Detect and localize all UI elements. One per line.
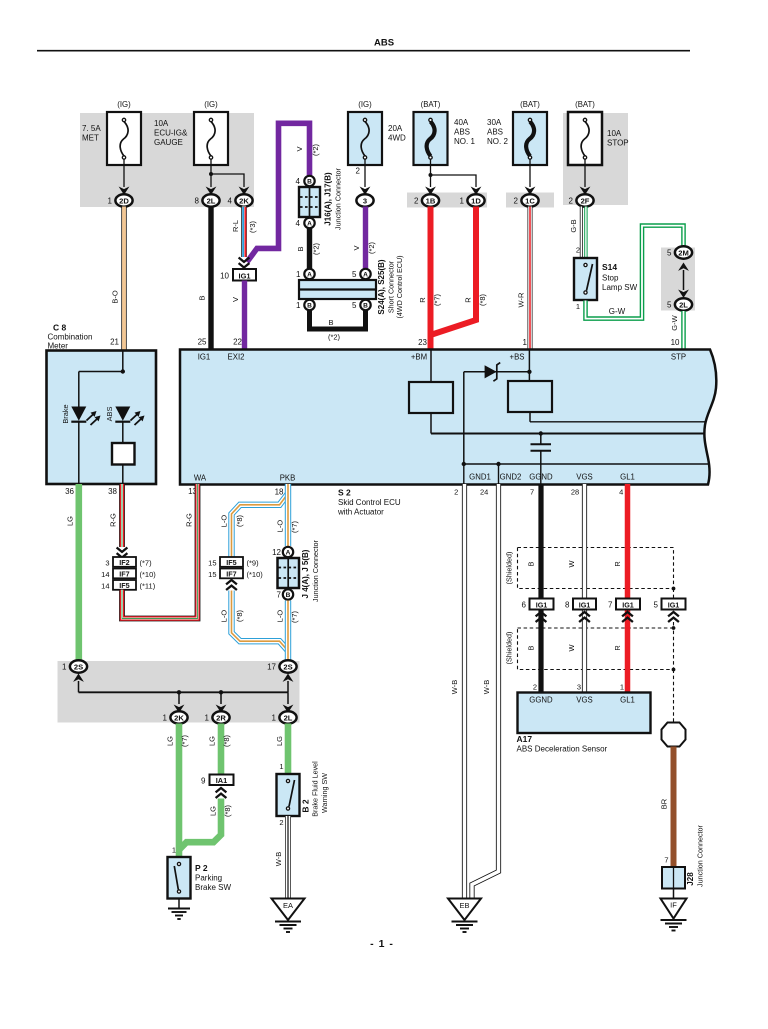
svg-text:Parking: Parking bbox=[195, 874, 222, 883]
svg-text:NO. 1: NO. 1 bbox=[454, 137, 475, 146]
svg-text:2S: 2S bbox=[74, 662, 83, 671]
svg-text:(*2): (*2) bbox=[311, 143, 320, 156]
svg-text:22: 22 bbox=[233, 338, 242, 347]
svg-text:40A: 40A bbox=[454, 118, 469, 127]
combination meter C8 box bbox=[47, 351, 157, 485]
svg-text:(*11): (*11) bbox=[140, 581, 156, 590]
svg-text:(*7): (*7) bbox=[290, 520, 299, 533]
svg-text:15: 15 bbox=[208, 558, 216, 567]
connector 1B (pin 2) bbox=[425, 187, 436, 195]
wire fuse MET to 2D bbox=[123, 159, 125, 187]
junction pass-through arrows 2M to 2L bbox=[678, 263, 689, 298]
page number bbox=[370, 938, 394, 950]
svg-text:IA1: IA1 bbox=[216, 776, 228, 785]
svg-text:(*7): (*7) bbox=[290, 610, 299, 623]
svg-text:IG1: IG1 bbox=[622, 600, 634, 609]
svg-text:J16(A), J17(B): J16(A), J17(B) bbox=[324, 172, 333, 226]
svg-text:GL1: GL1 bbox=[620, 696, 635, 705]
fuse 40A ABS NO.1 bbox=[414, 100, 476, 165]
svg-text:(Shielded): (Shielded) bbox=[504, 552, 513, 585]
svg-text:GAUGE: GAUGE bbox=[154, 138, 183, 147]
svg-text:(*2): (*2) bbox=[312, 242, 321, 255]
wire BR shield drain to J28 bbox=[660, 747, 674, 868]
svg-text:+BS: +BS bbox=[510, 353, 525, 362]
junction connector IF7 (pin 14, *10) bbox=[101, 569, 156, 579]
svg-text:1: 1 bbox=[576, 302, 580, 311]
ECU internal +BM lead bbox=[430, 350, 432, 382]
arrows below IG1 pin5 bbox=[668, 612, 679, 622]
svg-text:2: 2 bbox=[576, 246, 580, 255]
svg-text:10: 10 bbox=[671, 338, 680, 347]
wire R-L (*3) from 2K to IG1 node bbox=[231, 207, 257, 258]
svg-text:IG1: IG1 bbox=[198, 353, 211, 362]
svg-text:2L: 2L bbox=[284, 713, 293, 722]
connector strip shading (2M-2L junction) bbox=[661, 248, 695, 311]
svg-text:A: A bbox=[307, 272, 312, 279]
svg-text:GND1: GND1 bbox=[469, 473, 491, 482]
svg-text:PKB: PKB bbox=[280, 474, 296, 483]
svg-text:24: 24 bbox=[480, 488, 488, 497]
svg-text:LG: LG bbox=[275, 736, 284, 746]
svg-text:C 8: C 8 bbox=[53, 323, 67, 333]
svg-text:1B: 1B bbox=[426, 196, 436, 205]
svg-text:W: W bbox=[567, 560, 576, 567]
wire fuse ABS NO.2 to 1C bbox=[529, 159, 531, 187]
svg-text:2M: 2M bbox=[678, 248, 689, 257]
junction connector IF5 (pin 15, *9) bbox=[208, 557, 259, 567]
svg-text:VGS: VGS bbox=[576, 473, 592, 482]
svg-text:B: B bbox=[527, 561, 536, 566]
svg-text:1: 1 bbox=[62, 663, 67, 672]
svg-text:B: B bbox=[307, 303, 312, 310]
shield box lower (Shielded) bbox=[504, 628, 673, 670]
wire B-O from 2D to combination meter pin 21 bbox=[110, 207, 124, 351]
svg-text:7: 7 bbox=[608, 601, 613, 610]
svg-text:1: 1 bbox=[205, 714, 210, 723]
svg-text:IF2: IF2 bbox=[119, 558, 129, 567]
svg-text:17: 17 bbox=[267, 663, 276, 672]
svg-text:B: B bbox=[286, 592, 291, 599]
fuse 7.5A MET bbox=[82, 100, 141, 165]
svg-text:Lamp SW: Lamp SW bbox=[602, 283, 638, 292]
arrows below IG1 pin6 bbox=[536, 612, 547, 622]
svg-text:Junction Connector: Junction Connector bbox=[333, 167, 342, 230]
connector 3 bbox=[360, 187, 371, 195]
svg-text:5: 5 bbox=[352, 270, 357, 279]
svg-text:4: 4 bbox=[296, 177, 301, 186]
junction connector IF2 (pin 3, *7) bbox=[105, 557, 152, 567]
junction 2S left (pin 1) bbox=[62, 660, 87, 672]
svg-text:4: 4 bbox=[619, 488, 623, 497]
connector 2K (pin 4) bbox=[239, 187, 250, 195]
svg-text:R-G: R-G bbox=[109, 513, 118, 527]
svg-text:14: 14 bbox=[101, 581, 109, 590]
svg-text:L-O: L-O bbox=[276, 520, 285, 533]
svg-text:R: R bbox=[613, 561, 622, 566]
wire L-O (*8) return to 2S bbox=[220, 591, 288, 651]
svg-text:4: 4 bbox=[296, 219, 301, 228]
short connector S24(A), S25(B) (4WD Control ECU) bbox=[296, 255, 404, 318]
junction arrows out of IF7 bbox=[226, 580, 237, 590]
svg-text:9: 9 bbox=[201, 776, 206, 785]
svg-text:7. 5A: 7. 5A bbox=[82, 124, 101, 133]
svg-text:IF5: IF5 bbox=[226, 558, 236, 567]
svg-text:GND2: GND2 bbox=[500, 473, 522, 482]
svg-text:Combination: Combination bbox=[48, 333, 93, 342]
wire R (*7) from 1B to ECU +BM pin 23 bbox=[418, 207, 442, 351]
ECU internal capacitor bbox=[531, 431, 552, 464]
connector 2D bbox=[119, 187, 130, 195]
wire fuse STOP to 2F bbox=[584, 159, 586, 187]
svg-text:10: 10 bbox=[220, 272, 229, 281]
svg-text:A: A bbox=[363, 272, 368, 279]
svg-text:2: 2 bbox=[514, 197, 519, 206]
svg-text:B: B bbox=[363, 303, 368, 310]
svg-text:(Shielded): (Shielded) bbox=[504, 632, 513, 665]
svg-text:2L: 2L bbox=[207, 196, 216, 205]
svg-text:IG1: IG1 bbox=[579, 600, 591, 609]
svg-text:GGND: GGND bbox=[529, 696, 553, 705]
C8 internal resistor box bbox=[112, 443, 135, 465]
svg-text:1: 1 bbox=[620, 683, 624, 692]
svg-text:(*9): (*9) bbox=[247, 558, 260, 567]
svg-text:L-O: L-O bbox=[276, 610, 285, 623]
svg-text:10A: 10A bbox=[154, 119, 169, 128]
connector strip shading (1B 1D) bbox=[407, 193, 487, 208]
shield drain octagon terminal bbox=[662, 723, 686, 747]
svg-text:MET: MET bbox=[82, 134, 99, 143]
junction connector IG1 (pin 5) bbox=[654, 599, 686, 610]
svg-text:Brake Fluid Level: Brake Fluid Level bbox=[310, 761, 319, 817]
wire B from 2L to ECU pin 25 bbox=[198, 207, 211, 351]
A17 designation text bbox=[517, 734, 608, 754]
ECU internal solenoid box 2 bbox=[508, 381, 552, 412]
svg-text:B: B bbox=[198, 295, 207, 300]
arrows below IG1 pin8 bbox=[579, 612, 590, 622]
svg-text:25: 25 bbox=[198, 338, 207, 347]
wire LG (*8) from 2R to IA1 bbox=[208, 724, 232, 775]
fuse 20A 4WD bbox=[348, 100, 406, 165]
junction 2M (pin 5) bbox=[667, 246, 692, 258]
svg-text:2: 2 bbox=[279, 818, 283, 827]
junction 2R (pin 1) bbox=[205, 711, 230, 723]
svg-text:B 2: B 2 bbox=[300, 799, 310, 813]
svg-text:EB: EB bbox=[459, 901, 469, 910]
junction connector IF7 (pin 15, *10) bbox=[208, 569, 263, 579]
svg-text:3: 3 bbox=[363, 196, 367, 205]
svg-text:2: 2 bbox=[533, 683, 537, 692]
svg-text:2: 2 bbox=[356, 167, 361, 176]
svg-text:7: 7 bbox=[664, 856, 668, 865]
svg-text:R: R bbox=[613, 645, 622, 650]
svg-text:ECU-IG&: ECU-IG& bbox=[154, 129, 188, 138]
connector 2L (pin 8) bbox=[206, 187, 217, 195]
title ABS bbox=[374, 38, 394, 49]
wire V (*2) from IG1 node to junction connector J16 bbox=[247, 123, 320, 262]
junction connector IG1 (pin 7) bbox=[608, 599, 640, 610]
svg-text:15: 15 bbox=[208, 570, 216, 579]
svg-text:2S: 2S bbox=[283, 662, 292, 671]
svg-text:5: 5 bbox=[352, 301, 357, 310]
wire brake lamp to pin 36 bbox=[78, 422, 80, 484]
svg-text:A: A bbox=[307, 221, 312, 228]
svg-text:LG: LG bbox=[208, 736, 217, 746]
svg-text:W-B: W-B bbox=[274, 852, 283, 866]
svg-text:ABS: ABS bbox=[105, 407, 114, 422]
svg-text:7: 7 bbox=[277, 591, 282, 600]
svg-text:Junction Connector: Junction Connector bbox=[311, 539, 320, 602]
svg-text:5: 5 bbox=[667, 249, 672, 258]
svg-text:STOP: STOP bbox=[607, 139, 629, 148]
svg-text:28: 28 bbox=[571, 488, 579, 497]
junction arrows into IF2 bbox=[117, 548, 128, 558]
connector 1C (pin 2) bbox=[525, 187, 536, 195]
svg-text:+BM: +BM bbox=[411, 353, 427, 362]
brake fluid level warning switch B2 bbox=[277, 761, 329, 827]
arrows below IG1 pin7 bbox=[622, 612, 633, 622]
junction 2L (pin 1) bbox=[272, 711, 297, 723]
svg-text:2K: 2K bbox=[174, 713, 184, 722]
wire G-B from 2F to stop lamp switch pin 2 bbox=[569, 207, 586, 259]
pin numbers below C8 and S2 bbox=[65, 487, 284, 497]
wire B GGND from ECU pin 7 to sensor bbox=[527, 484, 541, 693]
svg-text:- 1 -: - 1 - bbox=[370, 938, 394, 950]
svg-text:GL1: GL1 bbox=[620, 473, 635, 482]
wire G-W from S14 to junction 2M bbox=[586, 226, 684, 319]
ECU internal zener diode branch bbox=[464, 363, 532, 464]
svg-text:1C: 1C bbox=[525, 196, 535, 205]
svg-text:BR: BR bbox=[660, 798, 669, 809]
svg-text:(*3): (*3) bbox=[248, 220, 257, 233]
svg-text:V: V bbox=[231, 297, 240, 302]
C8 internal wiring bbox=[79, 351, 125, 407]
fuse 30A ABS NO.2 bbox=[487, 100, 547, 165]
ECU bottom pin numbers bbox=[454, 488, 623, 497]
wire R (*8) from 1D bbox=[432, 207, 487, 335]
ABS warning lamp LED bbox=[105, 407, 144, 426]
svg-text:A: A bbox=[286, 550, 291, 557]
svg-text:R: R bbox=[418, 297, 427, 303]
ground below P2 bbox=[168, 899, 190, 920]
junction connector IG1 (pin 8) bbox=[565, 599, 596, 610]
ECU internal wire box2 to bus bbox=[530, 412, 707, 422]
svg-text:(BAT): (BAT) bbox=[575, 100, 595, 109]
svg-text:(BAT): (BAT) bbox=[520, 100, 540, 109]
svg-text:Skid Control ECU: Skid Control ECU bbox=[338, 498, 401, 507]
relay block shading (STOP fuse) bbox=[563, 113, 628, 205]
svg-text:(*8): (*8) bbox=[235, 609, 244, 622]
svg-text:V: V bbox=[295, 146, 304, 151]
svg-text:S24(A), S25(B): S24(A), S25(B) bbox=[377, 259, 386, 314]
svg-text:IF7: IF7 bbox=[119, 570, 129, 579]
junction connector J28 bbox=[662, 824, 704, 888]
svg-text:Warning SW: Warning SW bbox=[320, 773, 329, 813]
ground point IF bbox=[661, 899, 687, 931]
ECU internal ground bus bbox=[462, 462, 710, 484]
svg-text:ABS: ABS bbox=[487, 128, 503, 137]
connector 1D (pin 1) bbox=[471, 187, 482, 195]
svg-text:3: 3 bbox=[105, 558, 109, 567]
wire B (*2) loop under short connector bbox=[310, 311, 366, 342]
wire R-G from C8 pin 38 bbox=[109, 484, 122, 547]
svg-text:W-B: W-B bbox=[450, 680, 459, 694]
wire W-B from B2 pin 2 to ground EA bbox=[274, 816, 288, 899]
svg-text:L-O: L-O bbox=[220, 515, 229, 528]
ECU designation text S2 bbox=[337, 488, 401, 517]
svg-text:(4WD Control ECU): (4WD Control ECU) bbox=[395, 255, 404, 318]
svg-text:36: 36 bbox=[65, 487, 74, 496]
wire fuse ABS NO.1 to 1B / branch to 1D bbox=[429, 159, 477, 187]
svg-text:2: 2 bbox=[414, 197, 419, 206]
svg-text:1D: 1D bbox=[471, 196, 481, 205]
svg-text:Brake SW: Brake SW bbox=[195, 883, 231, 892]
junction arrows out of IA1 bbox=[216, 788, 227, 798]
svg-text:EA: EA bbox=[283, 901, 293, 910]
svg-text:EXI2: EXI2 bbox=[228, 353, 245, 362]
junction connector IF5 (pin 14, *11) bbox=[101, 580, 156, 590]
connector 2F (pin 2) bbox=[580, 187, 591, 195]
wire V (*2) from connector 3 to short connector bbox=[352, 207, 376, 269]
skid control ECU S2 box bbox=[180, 350, 716, 485]
svg-text:J 4(A), J 5(B): J 4(A), J 5(B) bbox=[301, 549, 310, 598]
svg-text:with Actuator: with Actuator bbox=[337, 508, 384, 517]
svg-text:IG1: IG1 bbox=[668, 600, 680, 609]
junction arrows into IG1 bbox=[239, 258, 250, 268]
wire L-O (*7) from ECU PKB pin 18 to J4 bbox=[276, 484, 300, 546]
wire fuse 4WD pin 2 to connector 3 bbox=[356, 159, 365, 187]
svg-text:IF7: IF7 bbox=[226, 570, 236, 579]
wire resistor to pin 38 bbox=[122, 465, 124, 485]
svg-text:V: V bbox=[352, 245, 361, 250]
junction 2L (pin 5) bbox=[667, 298, 692, 310]
wire LG (*8) branch from IA1 to parking brake switch bbox=[179, 799, 232, 850]
svg-text:(*8): (*8) bbox=[223, 804, 232, 817]
svg-text:1: 1 bbox=[460, 197, 465, 206]
svg-text:2: 2 bbox=[569, 197, 574, 206]
junction connector IG1 (pin 10) bbox=[220, 269, 256, 281]
svg-text:(*8): (*8) bbox=[478, 293, 487, 306]
junction 2K (pin 1) bbox=[163, 711, 188, 723]
wire R-G loop from IF5 to ECU WA pin 13 bbox=[122, 484, 198, 619]
svg-text:18: 18 bbox=[275, 488, 284, 497]
wire B (*2) J16 to short connector bbox=[296, 229, 321, 269]
svg-text:23: 23 bbox=[418, 338, 427, 347]
svg-text:G-B: G-B bbox=[569, 219, 578, 232]
junction connector J16(A), J17(B) bbox=[296, 167, 343, 230]
svg-text:30A: 30A bbox=[487, 118, 502, 127]
svg-text:W: W bbox=[567, 644, 576, 651]
svg-text:(*7): (*7) bbox=[433, 293, 442, 306]
svg-text:IG1: IG1 bbox=[239, 271, 251, 280]
svg-text:14: 14 bbox=[101, 570, 109, 579]
svg-text:(IG): (IG) bbox=[358, 100, 372, 109]
wire fuse ECU-IG to 2L / branch to 2K bbox=[209, 159, 244, 187]
svg-text:1: 1 bbox=[172, 846, 176, 855]
svg-text:(BAT): (BAT) bbox=[421, 100, 441, 109]
svg-text:B: B bbox=[307, 179, 312, 186]
svg-text:2L: 2L bbox=[679, 300, 688, 309]
svg-text:1: 1 bbox=[108, 197, 113, 206]
sensor pin numbers bbox=[533, 683, 624, 692]
C8 designation text bbox=[48, 323, 93, 351]
svg-text:(*10): (*10) bbox=[140, 570, 157, 579]
svg-text:A17: A17 bbox=[517, 734, 533, 744]
svg-text:2: 2 bbox=[454, 488, 458, 497]
junction 2S right (pin 17) bbox=[267, 660, 297, 672]
fuse 10A ECU-IG & GAUGE bbox=[154, 100, 228, 165]
svg-text:R-L: R-L bbox=[231, 220, 240, 232]
svg-text:12: 12 bbox=[272, 548, 281, 557]
svg-text:2R: 2R bbox=[216, 713, 226, 722]
svg-text:10A: 10A bbox=[607, 129, 622, 138]
svg-text:6: 6 bbox=[522, 601, 527, 610]
parking brake switch P2 (pin 1) bbox=[168, 846, 232, 899]
svg-text:(*10): (*10) bbox=[247, 570, 264, 579]
ECU internal wire box1 to bus bbox=[431, 413, 705, 434]
wire V from IG1 to ECU pin 22 EXI2 bbox=[231, 281, 244, 351]
svg-text:S 2: S 2 bbox=[338, 488, 351, 498]
fuse 10A STOP bbox=[568, 100, 629, 165]
svg-text:G-W: G-W bbox=[670, 314, 679, 330]
svg-text:ABS: ABS bbox=[374, 38, 394, 49]
ABS deceleration sensor A17 box bbox=[518, 693, 651, 734]
wire LG (*7) from 2K to parking brake switch bbox=[166, 724, 190, 858]
svg-text:Stop: Stop bbox=[602, 274, 619, 283]
wire W VGS from ECU pin 28 to sensor bbox=[567, 484, 584, 693]
wire L-O (*8) branch through IF5/IF7 bbox=[220, 494, 288, 557]
wire W-R from 1C to ECU +BS pin 1 bbox=[517, 207, 530, 351]
svg-text:3: 3 bbox=[577, 683, 581, 692]
wire W-B from ECU GND2 to ground EB bbox=[472, 484, 499, 899]
svg-text:IF5: IF5 bbox=[119, 581, 129, 590]
svg-text:ABS: ABS bbox=[454, 128, 470, 137]
svg-text:1: 1 bbox=[296, 270, 301, 279]
ECU internal solenoid box 1 bbox=[409, 382, 453, 413]
wire LG from 2L to brake fluid level switch bbox=[275, 724, 288, 775]
svg-text:B: B bbox=[296, 246, 305, 251]
svg-text:NO. 2: NO. 2 bbox=[487, 137, 508, 146]
connector strip shading (1C) bbox=[506, 193, 554, 208]
junction block shading (2S/2K/2R/2L) bbox=[58, 661, 300, 723]
svg-text:2D: 2D bbox=[119, 196, 129, 205]
svg-text:LG: LG bbox=[166, 736, 175, 746]
svg-text:(*2): (*2) bbox=[367, 241, 376, 254]
header rule bbox=[37, 50, 690, 52]
brake warning lamp LED bbox=[61, 404, 100, 425]
svg-text:W-R: W-R bbox=[517, 292, 526, 307]
svg-text:1: 1 bbox=[279, 762, 283, 771]
wire L-O (*7) from J4 B to 2S bbox=[276, 601, 300, 662]
svg-text:R-G: R-G bbox=[185, 513, 194, 527]
svg-text:Meter: Meter bbox=[48, 342, 69, 351]
junction connector IG1 (pin 6) bbox=[522, 599, 554, 610]
svg-text:LG: LG bbox=[66, 516, 75, 526]
shield drain dashed wire bbox=[672, 587, 676, 723]
svg-text:S14: S14 bbox=[602, 262, 617, 272]
svg-text:8: 8 bbox=[195, 197, 200, 206]
svg-text:5: 5 bbox=[654, 601, 659, 610]
svg-text:1: 1 bbox=[163, 714, 168, 723]
svg-text:20A: 20A bbox=[388, 124, 403, 133]
wire J28 to ground IF bbox=[673, 889, 675, 899]
svg-text:B: B bbox=[328, 318, 333, 327]
svg-text:1: 1 bbox=[272, 714, 277, 723]
svg-text:(*2): (*2) bbox=[328, 333, 341, 342]
svg-text:P 2: P 2 bbox=[195, 863, 208, 873]
svg-text:ABS Deceleration Sensor: ABS Deceleration Sensor bbox=[517, 745, 608, 754]
svg-text:4: 4 bbox=[228, 197, 233, 206]
svg-text:L-O: L-O bbox=[220, 610, 229, 623]
